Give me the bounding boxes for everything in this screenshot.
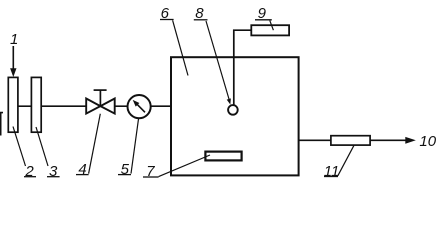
svg-text:3: 3: [49, 163, 58, 180]
svg-text:11: 11: [324, 163, 340, 180]
svg-text:2: 2: [24, 163, 34, 180]
svg-text:8: 8: [195, 5, 204, 22]
svg-text:4: 4: [78, 161, 86, 178]
svg-text:1: 1: [10, 31, 18, 48]
svg-text:9: 9: [258, 5, 267, 22]
svg-text:10: 10: [419, 133, 436, 150]
svg-text:7: 7: [146, 163, 155, 180]
svg-text:5: 5: [121, 161, 130, 178]
svg-text:6: 6: [161, 5, 170, 22]
